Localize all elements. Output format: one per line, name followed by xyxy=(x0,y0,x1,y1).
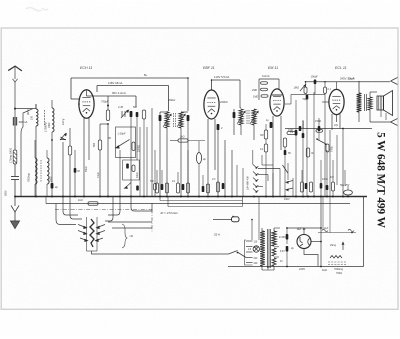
svg-text:47μ: 47μ xyxy=(334,124,339,127)
wire y94 line xyxy=(291,93,325,95)
IF1 winding secondary xyxy=(179,112,183,128)
svg-text:5 W 648 M/T 499 W: 5 W 648 M/T 499 W xyxy=(375,132,387,229)
wire coil to cap xyxy=(14,164,16,176)
ground symbol xyxy=(11,221,20,229)
field arrow xyxy=(342,243,344,250)
coil L1 antenna primary xyxy=(36,109,38,126)
wire x343 down xyxy=(342,129,344,197)
cluster x302 xyxy=(300,182,303,192)
wire selector feed xyxy=(258,197,260,240)
svg-text:3M: 3M xyxy=(260,134,263,137)
tone switch xyxy=(317,139,326,144)
wire right rail xyxy=(363,197,365,267)
svg-text:AZ 11: AZ 11 xyxy=(296,227,306,231)
capacitor EBF blob xyxy=(217,124,220,130)
tube ECH11 electrodes xyxy=(82,97,90,99)
faint pencil smudge above border xyxy=(26,8,48,11)
bus junction dots xyxy=(14,196,16,198)
resistor 1000 osc xyxy=(132,142,135,151)
wire opt bottom xyxy=(358,112,360,122)
dash-dot vertical xyxy=(151,210,153,233)
svg-text:220V: 220V xyxy=(299,267,305,271)
wire osc elbow xyxy=(100,123,108,125)
svg-text:750pF: 750pF xyxy=(101,100,109,104)
output transformer core xyxy=(364,94,366,111)
resistor osc lower xyxy=(132,165,135,172)
capacitor 30pF xyxy=(74,168,77,173)
band switch bottom wire xyxy=(92,251,229,254)
svg-text:EM 11: EM 11 xyxy=(268,66,278,70)
resistor 12mg xyxy=(68,146,71,155)
svg-text:10kΩ: 10kΩ xyxy=(322,178,328,181)
capacitor antenna series xyxy=(11,176,19,178)
svg-text:150: 150 xyxy=(31,115,34,120)
resistor 3M xyxy=(264,130,267,139)
svg-text:2MΩ: 2MΩ xyxy=(251,89,257,92)
resistor EM ladder 3 xyxy=(261,95,268,97)
IF1 cap left xyxy=(159,115,162,121)
wire x330-337 down xyxy=(329,130,331,197)
wire x225 down xyxy=(224,140,226,197)
svg-text:20mg: 20mg xyxy=(330,244,337,247)
wire cap to earth xyxy=(14,180,16,207)
IF2 arrow primary xyxy=(237,111,245,124)
node y128 junction xyxy=(342,128,344,130)
wire heater verticals xyxy=(322,197,324,230)
resistor 500ohm xyxy=(98,140,101,150)
svg-text:ECL 11: ECL 11 xyxy=(335,66,347,70)
wire 500ohm down xyxy=(99,150,101,197)
svg-text:0.3mA: 0.3mA xyxy=(302,121,305,128)
wire EBF11 pins down xyxy=(207,119,209,197)
IF1 top wires xyxy=(160,111,169,113)
wire second bus drop xyxy=(45,197,47,204)
svg-text:7000mg: 7000mg xyxy=(334,268,344,271)
resistor 50k EM xyxy=(283,138,286,147)
IF2 winding primary xyxy=(239,109,243,125)
wire below fuse xyxy=(14,126,16,150)
wire ECH11 bottom pins xyxy=(83,118,85,197)
resistor osc grid xyxy=(106,110,109,121)
svg-text:2000: 2000 xyxy=(50,176,53,183)
wire 118V drop xyxy=(168,86,170,112)
IF1 bottom wires xyxy=(166,128,168,197)
field dashes xyxy=(328,261,346,263)
svg-text:6,3V: 6,3V xyxy=(280,251,285,253)
tube EM11 electrodes xyxy=(273,95,281,97)
tube AZ11 envelope xyxy=(297,235,311,249)
tube EBF11 envelope xyxy=(204,90,219,119)
svg-text:200kΩ: 200kΩ xyxy=(219,100,228,104)
band switch contacts right xyxy=(97,225,105,228)
capacitor 50uF oval xyxy=(344,190,353,195)
wire line y128 xyxy=(285,128,372,130)
svg-text:50kΩ: 50kΩ xyxy=(86,166,88,172)
wire AZ11 bottom xyxy=(304,249,318,267)
svg-text:≈30: ≈30 xyxy=(129,235,134,238)
wire left bend top xyxy=(23,109,33,127)
capacitor 50pF grid xyxy=(306,95,309,100)
svg-text:700Ω: 700Ω xyxy=(336,272,342,275)
capacitor EM blob xyxy=(284,150,287,155)
IF1 arrow secondary xyxy=(177,114,185,127)
wire AZ11 cathode xyxy=(311,241,321,243)
capacitor right blob b xyxy=(326,185,329,190)
node antenna junction xyxy=(14,108,16,110)
svg-text:1kΩ: 1kΩ xyxy=(180,136,185,139)
scan noise texture xyxy=(0,0,1,1)
coil L4 longwave xyxy=(47,158,49,184)
fuse 300mA xyxy=(13,118,17,126)
earth arrow upper xyxy=(11,206,19,213)
wire EM elbow xyxy=(261,155,263,165)
wire antenna down xyxy=(14,82,16,117)
IF1 arrow primary xyxy=(163,114,171,127)
cluster resistors mid1 xyxy=(155,183,158,193)
volume pot 1M xyxy=(304,87,307,94)
band switch frame xyxy=(86,217,88,251)
svg-text:4kHz: 4kHz xyxy=(27,109,30,115)
wire 96V line xyxy=(87,95,137,97)
switch contacts left xyxy=(253,165,258,168)
svg-text:110V 5.5mA: 110V 5.5mA xyxy=(214,75,229,79)
switch vertical wires xyxy=(236,165,238,197)
svg-text:170mg 300Ω: 170mg 300Ω xyxy=(9,148,13,163)
svg-text:ECH 11: ECH 11 xyxy=(80,66,92,70)
wire x296 down xyxy=(295,100,297,130)
speaker cone xyxy=(384,91,393,116)
resistor right xyxy=(331,182,334,191)
svg-text:1000Ω: 1000Ω xyxy=(139,145,141,152)
output transformer secondary xyxy=(368,97,372,110)
node L2 bus xyxy=(51,139,53,141)
capacitor 100pF out xyxy=(318,126,321,131)
svg-text:10kΩ: 10kΩ xyxy=(137,172,139,178)
capacitor 2-30 trimmer xyxy=(121,110,128,118)
wire 245V line xyxy=(306,81,391,83)
trimmer below box xyxy=(125,183,131,189)
wire under-bus elbow a xyxy=(159,197,161,201)
svg-text:5000: 5000 xyxy=(5,190,8,196)
wire B+ line xyxy=(71,77,188,79)
svg-text:B+: B+ xyxy=(144,73,148,77)
node pot top xyxy=(305,81,307,83)
node bottom right xyxy=(320,266,322,268)
node ECH11 grid xyxy=(78,103,80,105)
wire AZ11 anode top xyxy=(303,228,305,235)
wire x345 down xyxy=(344,170,346,186)
svg-text:2×300: 2×300 xyxy=(279,236,286,239)
capacitor mid3 xyxy=(202,186,205,192)
capacitor blob on y128 xyxy=(299,126,302,131)
svg-text:0.05μ: 0.05μ xyxy=(332,146,334,152)
coil L3 longwave xyxy=(35,158,37,184)
band switch feed wires right xyxy=(108,197,120,215)
wire B+ right drop xyxy=(187,78,189,111)
IF2 bottom wires xyxy=(240,125,242,135)
dial lamp xyxy=(253,246,259,252)
capacitor osc blob2 xyxy=(136,112,139,117)
wire antenna to coil xyxy=(15,108,33,110)
wire transformer bottom xyxy=(262,269,274,271)
svg-text:7000mg: 7000mg xyxy=(28,173,31,182)
band switch contacts left xyxy=(78,225,86,228)
switch contact wires xyxy=(258,168,280,170)
core L1-L2 xyxy=(44,110,46,126)
field resistor zigzag xyxy=(330,256,342,259)
power transformer primary xyxy=(260,231,265,266)
wire under-bus elbow b xyxy=(167,197,169,207)
wire ECL pins xyxy=(331,114,333,130)
wire left bend xyxy=(21,127,23,197)
resistor 50k osc xyxy=(142,110,145,119)
capacitor 100pF xyxy=(314,80,317,85)
trimmer oscillator xyxy=(117,140,130,148)
wire to ground xyxy=(14,212,16,221)
cluster right of EBF xyxy=(216,182,219,192)
IF2 winding secondary xyxy=(252,109,256,125)
wire ECL top xyxy=(336,82,338,90)
switch contacts right xyxy=(287,181,293,183)
capacitor below box xyxy=(136,186,139,191)
voltage selector contacts xyxy=(246,240,253,242)
wire ECL grid xyxy=(322,101,329,103)
power transformer secondary heater1 xyxy=(272,248,276,256)
svg-text:240V: 240V xyxy=(284,198,290,201)
node AZ11 top left xyxy=(286,227,288,229)
svg-text:12mg: 12mg xyxy=(62,118,65,125)
svg-text:1-30pF: 1-30pF xyxy=(118,133,126,136)
power transformer secondary HT xyxy=(272,231,276,246)
resistor 0.1M tone xyxy=(316,129,323,132)
wire B+ left drop xyxy=(70,78,72,99)
resistor x155 xyxy=(154,184,157,191)
box oscillator upper xyxy=(116,127,136,158)
band switch feed wires left xyxy=(63,197,78,215)
mains pointer xyxy=(213,219,232,221)
svg-text:JF = 473 kHz: JF = 473 kHz xyxy=(160,211,178,215)
svg-text:EBF 11: EBF 11 xyxy=(203,66,215,70)
resistor 3k xyxy=(306,148,309,157)
power transformer leads xyxy=(261,228,263,232)
svg-text:150Ω: 150Ω xyxy=(315,120,321,123)
svg-text:4V: 4V xyxy=(280,261,283,263)
mains switch arm xyxy=(229,251,238,255)
svg-text:LW–MW–KW: LW–MW–KW xyxy=(248,175,250,190)
wire 1k line xyxy=(170,140,178,142)
tube AZ11 electrodes xyxy=(300,237,303,243)
svg-text:2-30: 2-30 xyxy=(117,106,124,109)
wire x321 down xyxy=(320,197,322,267)
speaker coil xyxy=(377,96,384,110)
band switch right elbows xyxy=(108,221,152,223)
bracket selector xyxy=(122,224,127,248)
capacitor 0.1 blob xyxy=(295,130,298,136)
wire EM feed top xyxy=(259,78,279,80)
wire L1 top xyxy=(35,104,37,109)
resistor 1k bus xyxy=(88,202,98,205)
coil L2 secondary xyxy=(52,108,54,132)
wire EM pins down xyxy=(272,116,274,197)
output transformer primary xyxy=(357,93,362,112)
power transformer secondary heater2 xyxy=(272,258,276,266)
IF1 core xyxy=(173,113,175,127)
switch arm right xyxy=(283,165,288,173)
resistor EM ladder 2 xyxy=(261,88,268,90)
wire x291 elbow xyxy=(290,94,292,104)
capacitor 1uF EM xyxy=(270,122,273,128)
power transformer core xyxy=(267,229,269,268)
svg-text:0.2mA: 0.2mA xyxy=(262,74,270,78)
svg-text:96V 4.2mA: 96V 4.2mA xyxy=(112,91,126,95)
IF2 cap left xyxy=(233,112,236,118)
svg-text:20kHz: 20kHz xyxy=(167,98,176,102)
resistor 0.3M xyxy=(264,144,267,152)
capacitor osc lower blob xyxy=(126,164,129,169)
core L3 xyxy=(40,160,42,182)
svg-text:2μ: 2μ xyxy=(54,185,58,189)
tube ECH11 envelope xyxy=(79,90,94,118)
svg-text:1kΩ: 1kΩ xyxy=(78,199,83,202)
wire 118V line xyxy=(97,85,169,87)
svg-text:25 A: 25 A xyxy=(214,233,220,237)
svg-text:1MΩ: 1MΩ xyxy=(253,96,258,99)
svg-text:500: 500 xyxy=(93,142,96,147)
trimmer C ant xyxy=(60,133,66,140)
resistor EM ladder 1 xyxy=(261,82,268,84)
cluster resistors mid2 xyxy=(176,183,179,193)
capacitor tone rotated xyxy=(326,144,329,152)
chassis bus xyxy=(15,196,367,198)
wire opt top xyxy=(358,81,360,93)
wire x63 down xyxy=(62,142,64,197)
IF1 cap right xyxy=(187,115,190,121)
node osc junction xyxy=(107,123,109,125)
coil 170mg 300ohm xyxy=(13,150,17,164)
heater tap symbols xyxy=(322,229,328,232)
wire L2 down xyxy=(51,132,53,197)
wire speaker down xyxy=(380,110,382,117)
capacitor 4u oval xyxy=(196,153,201,164)
capacitor right blob a xyxy=(320,183,323,189)
tube ECL11 electrodes xyxy=(332,95,340,97)
wire EBF11 feed drop xyxy=(239,80,241,108)
IF1 winding primary xyxy=(165,112,169,128)
wire x314 down xyxy=(313,92,315,197)
capacitor 4uF b xyxy=(286,246,289,252)
capacitor 4uF a xyxy=(286,234,289,240)
capacitor osc blob1 xyxy=(130,111,133,117)
wire 96V drop xyxy=(135,96,137,107)
voltage selector frame xyxy=(245,240,253,265)
svg-text:3300: 3300 xyxy=(48,122,51,128)
svg-text:1MΩ: 1MΩ xyxy=(294,87,299,90)
node AZ11 top right xyxy=(320,227,322,229)
svg-text:50pF: 50pF xyxy=(303,98,309,101)
wire second bus xyxy=(46,203,350,205)
wire EBF11 anode top xyxy=(211,80,213,90)
antenna xyxy=(8,66,22,71)
tube EBF11 electrodes xyxy=(207,97,215,99)
IF2 arrow secondary xyxy=(250,111,258,124)
terminal arrow top right xyxy=(391,78,398,85)
wire osc x108 down xyxy=(107,124,109,197)
capacitor 2u blob xyxy=(51,183,54,189)
wire osc verticals xyxy=(119,150,121,197)
terminal arrow lower right xyxy=(391,119,398,126)
resistor 1M horizontal xyxy=(287,132,297,135)
tube EM11 envelope xyxy=(270,89,284,116)
band switch shaft xyxy=(90,219,94,247)
svg-text:0.1μF: 0.1μF xyxy=(348,78,355,81)
dash-dot chassis line xyxy=(55,209,152,211)
box oscillator lower xyxy=(123,160,140,180)
svg-text:118V 18mA: 118V 18mA xyxy=(108,81,123,85)
wire bottom rail xyxy=(228,266,364,268)
svg-text:100pF: 100pF xyxy=(311,75,319,79)
tube ECL11 envelope xyxy=(329,89,344,114)
wire ECH11 top xyxy=(86,90,88,96)
capacitor 750pF xyxy=(107,105,109,107)
svg-text:Feld: Feld xyxy=(322,269,327,272)
IF2 core xyxy=(246,110,248,124)
resistor 1k xyxy=(178,139,188,142)
capacitor 50pF2 xyxy=(302,133,305,138)
resistor 0.1M right xyxy=(324,87,327,94)
